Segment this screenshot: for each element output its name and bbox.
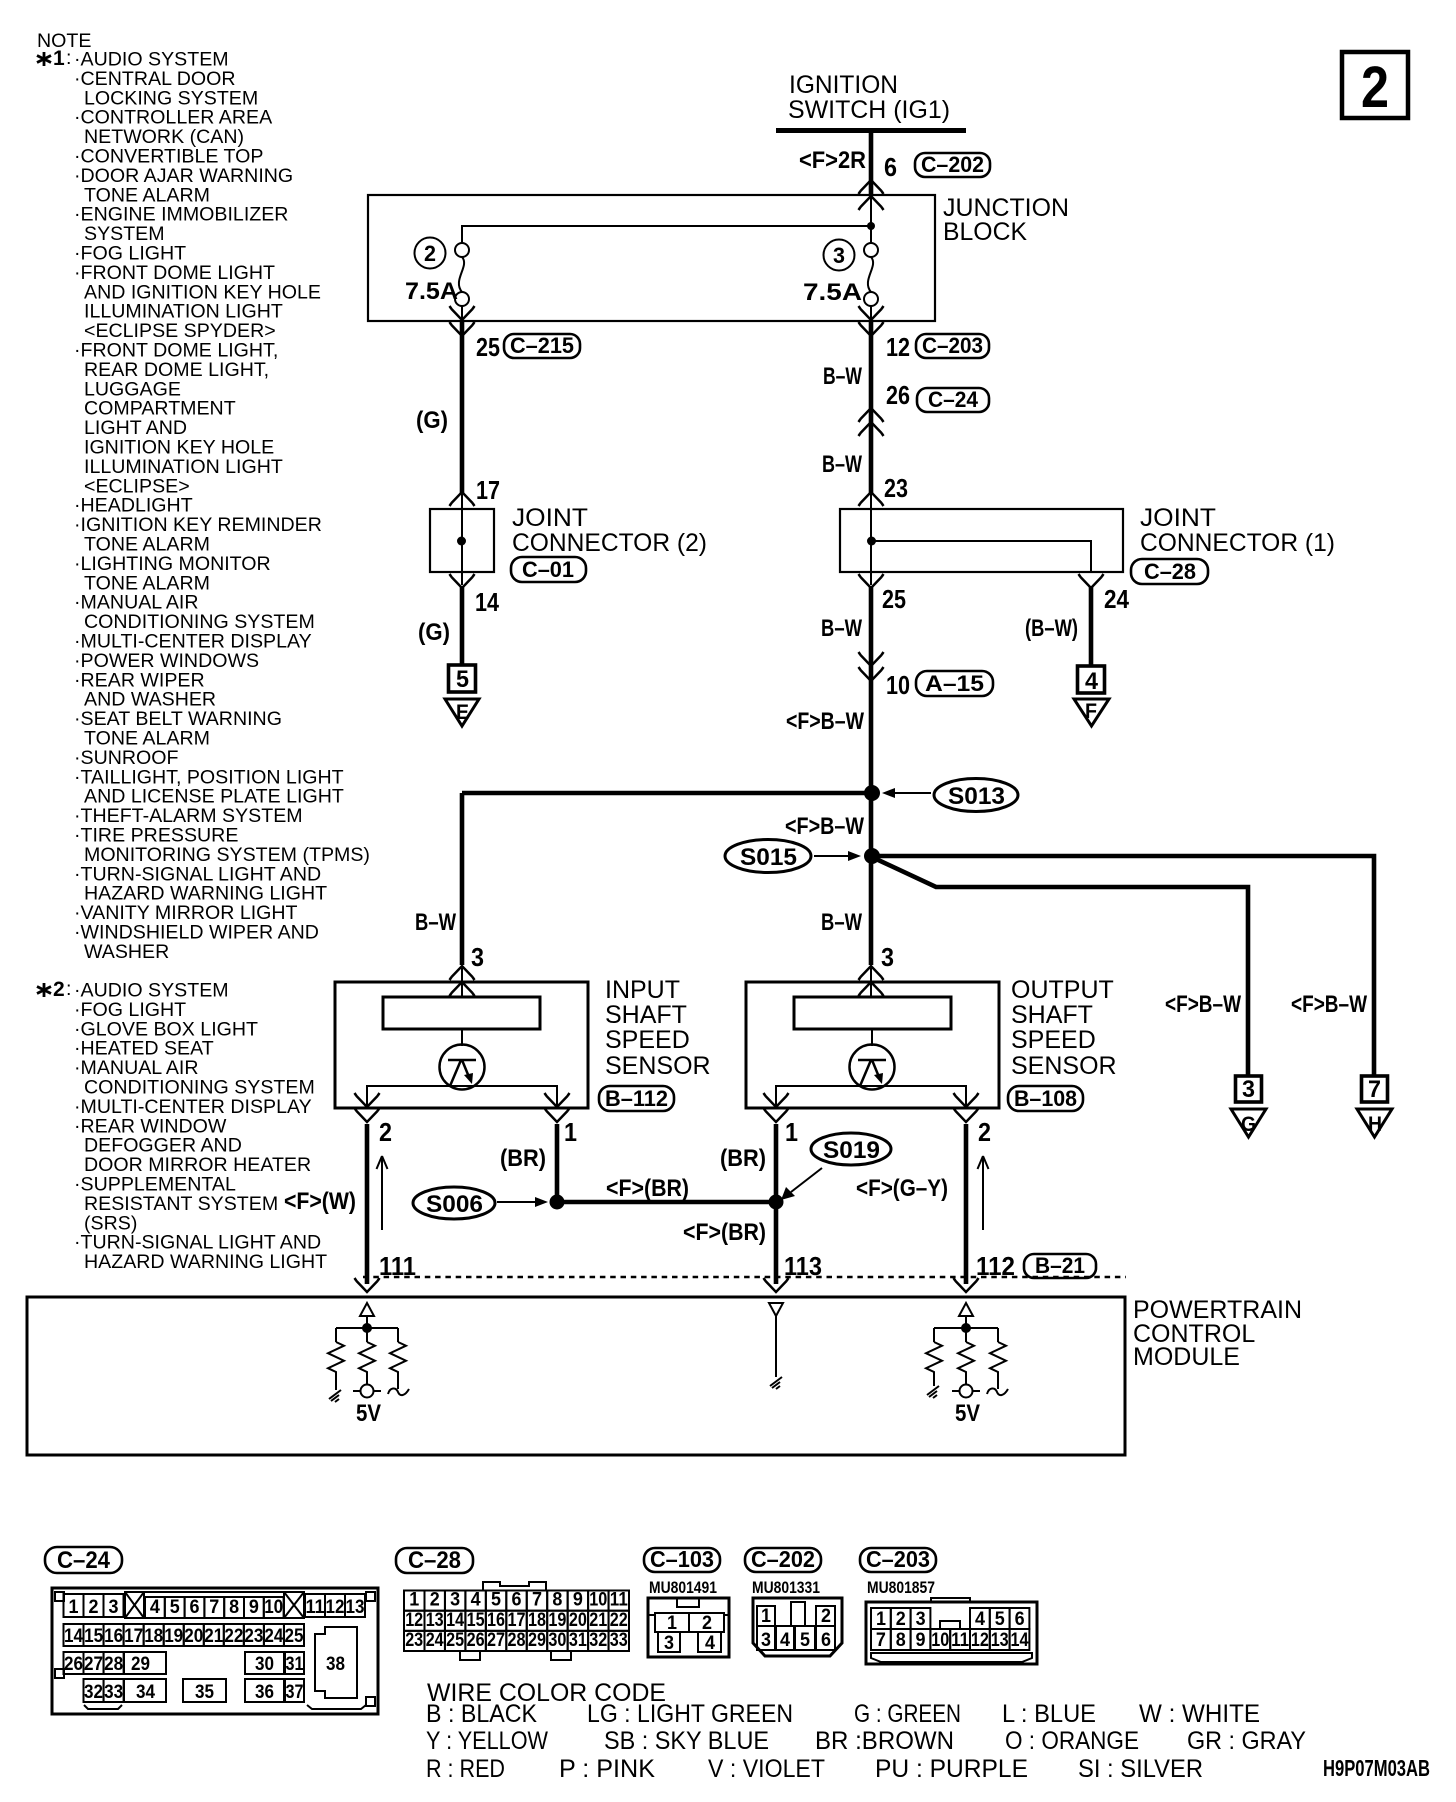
pin 25 below joint connector 1 xyxy=(882,584,906,614)
svg-text:2: 2 xyxy=(379,1117,392,1147)
svg-text:JOINT: JOINT xyxy=(1140,504,1216,532)
output sensor coil rect xyxy=(794,997,951,1029)
svg-text:17: 17 xyxy=(476,475,500,505)
svg-text:5: 5 xyxy=(995,1609,1005,1630)
svg-text:1: 1 xyxy=(667,1613,677,1634)
connector C-28 label box xyxy=(1131,559,1208,584)
joint connector 2 exit chevron xyxy=(450,574,475,588)
output sensor exit chevrons pin 2 xyxy=(954,1093,979,1122)
input shaft speed sensor box xyxy=(335,982,588,1108)
output shaft speed sensor box xyxy=(746,982,999,1108)
svg-text:R : RED: R : RED xyxy=(426,1755,505,1783)
node PCM left dot xyxy=(362,1323,372,1333)
svg-text:CONNECTOR (1): CONNECTOR (1) xyxy=(1140,529,1335,557)
pin 113 xyxy=(784,1251,822,1281)
wire input pin 2 to PCM 111 xyxy=(365,1124,370,1284)
svg-text:B–W: B–W xyxy=(821,615,862,642)
pin 25 left xyxy=(476,332,500,362)
svg-text:20: 20 xyxy=(569,1610,587,1631)
wire label F-B-W 2 xyxy=(785,813,864,840)
page number box 2 xyxy=(1342,52,1408,120)
svg-text:3: 3 xyxy=(833,243,845,268)
ground triangle H xyxy=(1357,1109,1392,1137)
wire label F-G-Y xyxy=(856,1175,948,1202)
svg-text:8: 8 xyxy=(229,1597,239,1618)
wire output pin 1 to PCM 113 xyxy=(774,1124,779,1284)
svg-text:12: 12 xyxy=(326,1597,345,1618)
ground R1 xyxy=(329,1390,341,1402)
svg-text:29: 29 xyxy=(131,1654,150,1675)
connector C-24 label box xyxy=(917,387,989,412)
svg-text:2: 2 xyxy=(1361,55,1389,120)
junction block label xyxy=(943,194,1069,246)
svg-text:<F>B–W: <F>B–W xyxy=(785,813,864,840)
svg-text:E: E xyxy=(456,701,469,724)
svg-text:2: 2 xyxy=(896,1609,906,1630)
coil hook R3 xyxy=(388,1388,409,1395)
svg-text:3: 3 xyxy=(761,1630,771,1651)
terminal square 3 right xyxy=(1236,1076,1262,1103)
svg-text:37: 37 xyxy=(286,1682,304,1703)
svg-text:C–28: C–28 xyxy=(408,1547,461,1574)
note list *1 xyxy=(37,47,370,963)
svg-text:31: 31 xyxy=(286,1654,304,1675)
connector C-202 label box xyxy=(915,152,990,177)
svg-text:18: 18 xyxy=(528,1610,546,1631)
node junction dot xyxy=(867,222,875,230)
joint connector 1 box xyxy=(840,509,1123,572)
svg-text:L : BLUE: L : BLUE xyxy=(1002,1700,1096,1728)
svg-text:22: 22 xyxy=(610,1610,628,1631)
wire through joint connector 2 xyxy=(461,494,463,585)
wire branch S013 horizontal xyxy=(462,791,872,796)
svg-text:5V: 5V xyxy=(356,1400,381,1427)
C-103 part number MU801491 xyxy=(649,1578,717,1597)
input sensor entry chevrons xyxy=(450,966,475,996)
svg-text:2: 2 xyxy=(821,1606,831,1627)
svg-text:O : ORANGE: O : ORANGE xyxy=(1005,1727,1139,1755)
svg-text:S015: S015 xyxy=(740,844,797,871)
connector C-202 chevrons xyxy=(859,180,884,210)
pin 1 label output sensor xyxy=(785,1117,798,1147)
fuse 3 xyxy=(864,243,878,321)
svg-text:2: 2 xyxy=(424,241,436,266)
connector B-21 label box xyxy=(1024,1253,1096,1278)
svg-text:25: 25 xyxy=(476,332,500,362)
svg-text:34: 34 xyxy=(136,1682,155,1703)
svg-text:9: 9 xyxy=(249,1597,259,1618)
svg-text:SHAFT: SHAFT xyxy=(1011,1001,1093,1029)
svg-text:14: 14 xyxy=(64,1626,83,1647)
wire S015 to terminal 7 xyxy=(872,856,1374,1076)
svg-text:SENSOR: SENSOR xyxy=(605,1052,711,1080)
svg-text:7: 7 xyxy=(876,1630,886,1651)
svg-text:25: 25 xyxy=(882,584,906,614)
svg-text:V : VIOLET: V : VIOLET xyxy=(708,1755,825,1783)
powertrain control module box xyxy=(27,1297,1125,1455)
svg-text:12: 12 xyxy=(971,1630,989,1651)
svg-text:B–W: B–W xyxy=(821,909,862,936)
svg-text:8: 8 xyxy=(552,1590,562,1611)
input sensor coil rect xyxy=(383,997,540,1029)
terminal square 4 xyxy=(1078,666,1105,695)
C-203 part number MU801857 xyxy=(867,1578,935,1597)
wire left fuse to joint connector 2 xyxy=(460,321,465,493)
node splice S006 xyxy=(550,1195,565,1210)
svg-text:SHAFT: SHAFT xyxy=(605,1001,687,1029)
svg-text:21: 21 xyxy=(204,1626,223,1647)
input sensor exit chevrons pin 2 xyxy=(355,1093,380,1122)
svg-text:S013: S013 xyxy=(948,783,1005,810)
svg-text:<F>(BR): <F>(BR) xyxy=(683,1219,766,1246)
svg-text:3: 3 xyxy=(109,1597,119,1618)
splice S013 arrow xyxy=(882,788,931,798)
svg-text:SPEED: SPEED xyxy=(1011,1026,1096,1054)
svg-text:16: 16 xyxy=(487,1610,505,1631)
svg-text:10: 10 xyxy=(264,1597,283,1618)
input sensor exit chevrons pin 1 xyxy=(545,1093,570,1122)
svg-text:<F>2R: <F>2R xyxy=(799,147,866,174)
svg-text:26: 26 xyxy=(467,1630,485,1651)
svg-text:H: H xyxy=(1368,1113,1382,1136)
svg-text:18: 18 xyxy=(144,1626,163,1647)
svg-text:7: 7 xyxy=(209,1597,219,1618)
svg-text:14: 14 xyxy=(475,587,499,617)
resistor R6 xyxy=(990,1342,1006,1389)
connector B-21 dashed line xyxy=(363,1276,1126,1279)
pin 3 right sensor xyxy=(881,942,894,972)
svg-text:LG : LIGHT GREEN: LG : LIGHT GREEN xyxy=(587,1700,793,1728)
svg-text:33: 33 xyxy=(104,1682,123,1703)
svg-text:S019: S019 xyxy=(823,1137,880,1164)
wire S015 diagonal to terminal 3 xyxy=(874,858,1248,1076)
pin 3 left sensor xyxy=(471,942,484,972)
svg-text:21: 21 xyxy=(589,1610,607,1631)
wire label G second xyxy=(418,619,450,646)
joint connector 2 box xyxy=(430,509,494,572)
svg-text:30: 30 xyxy=(548,1630,566,1651)
ground triangle G xyxy=(1231,1109,1266,1137)
node joint connector 1 dot xyxy=(867,537,876,546)
wire label F-BR below xyxy=(683,1219,766,1246)
pin 10 xyxy=(886,670,910,700)
input sensor label xyxy=(605,976,711,1080)
wire label F-B-W 1 xyxy=(786,708,864,735)
output sensor internal bus xyxy=(776,1086,966,1108)
node PCM right dot xyxy=(961,1323,971,1333)
svg-text:B : BLACK: B : BLACK xyxy=(426,1700,537,1728)
svg-text:5: 5 xyxy=(491,1590,501,1611)
wire output pin 2 to PCM 112 xyxy=(964,1124,969,1284)
svg-text:W : WHITE: W : WHITE xyxy=(1139,1700,1260,1728)
svg-text:3: 3 xyxy=(450,1590,460,1611)
svg-text:5: 5 xyxy=(800,1630,810,1651)
svg-text:C–202: C–202 xyxy=(751,1546,815,1572)
wire label F-W for pin 111 xyxy=(284,1188,356,1215)
svg-text:7.5A: 7.5A xyxy=(803,279,862,306)
svg-text:OUTPUT: OUTPUT xyxy=(1011,976,1114,1004)
wire dot to fuse 3 xyxy=(870,226,872,243)
fuse 2 number circle xyxy=(415,238,446,269)
wire label B-W right sensor xyxy=(821,909,862,936)
svg-text:MU801491: MU801491 xyxy=(649,1578,717,1597)
note heading xyxy=(37,30,91,52)
wire label B-W left sensor xyxy=(415,909,456,936)
svg-text:31: 31 xyxy=(569,1630,587,1651)
svg-text:C–202: C–202 xyxy=(921,152,984,177)
svg-text:C–24: C–24 xyxy=(928,387,979,412)
terminal square 7 xyxy=(1362,1076,1388,1103)
svg-text:SPEED: SPEED xyxy=(605,1026,690,1054)
svg-text:4: 4 xyxy=(705,1633,715,1654)
svg-text:1: 1 xyxy=(785,1117,798,1147)
svg-text:PU : PURPLE: PU : PURPLE xyxy=(875,1755,1028,1783)
svg-text:SI : SILVER: SI : SILVER xyxy=(1078,1755,1203,1783)
C-24 pins 14-25 row xyxy=(64,1624,305,1646)
svg-text:16: 16 xyxy=(104,1626,123,1647)
svg-text:27: 27 xyxy=(84,1654,103,1675)
joint connector 1 exit chevron pin 24 xyxy=(1079,574,1104,588)
svg-text:10: 10 xyxy=(589,1590,607,1611)
PCM entry chevron 113 xyxy=(764,1278,789,1292)
connector B-108 label box xyxy=(1008,1086,1083,1111)
resistor R4 xyxy=(926,1342,942,1386)
svg-text:9: 9 xyxy=(573,1590,583,1611)
connector C-24 label box xyxy=(45,1547,122,1574)
pin 26 xyxy=(886,380,910,410)
svg-text:C–01: C–01 xyxy=(522,557,574,582)
connector C-103 label box xyxy=(644,1546,720,1572)
svg-text:8: 8 xyxy=(896,1630,906,1651)
pin 24 xyxy=(1104,584,1129,614)
svg-text:30: 30 xyxy=(255,1654,274,1675)
svg-text:3: 3 xyxy=(471,942,484,972)
svg-text:<F>B–W: <F>B–W xyxy=(786,708,864,735)
svg-text:7: 7 xyxy=(532,1590,542,1611)
svg-text:3: 3 xyxy=(664,1633,674,1654)
svg-text:10: 10 xyxy=(931,1630,949,1651)
svg-text:<F>(W): <F>(W) xyxy=(284,1188,356,1215)
svg-text:B–21: B–21 xyxy=(1035,1253,1085,1278)
ground R4 xyxy=(927,1386,939,1398)
junction block box xyxy=(368,195,935,321)
wire label BR right xyxy=(720,1145,766,1172)
powertrain control module label xyxy=(1133,1296,1302,1371)
svg-text::: : xyxy=(66,47,71,69)
wire label B-W in parentheses xyxy=(1025,615,1078,642)
wire through joint connector 1 xyxy=(870,494,872,585)
input sensor wire coil to pickup xyxy=(461,1029,463,1046)
svg-text:INPUT: INPUT xyxy=(605,976,680,1004)
svg-text:7: 7 xyxy=(1368,1076,1381,1103)
svg-text:SWITCH (IG1): SWITCH (IG1) xyxy=(788,96,950,124)
wire label G left xyxy=(416,407,448,434)
svg-text:5: 5 xyxy=(170,1597,180,1618)
svg-text:MU801857: MU801857 xyxy=(867,1578,935,1597)
C-24 pins 1-13 row xyxy=(64,1592,366,1618)
node splice S015 xyxy=(864,848,880,864)
connector A-15 chevrons xyxy=(859,652,884,681)
splice S015 label xyxy=(725,840,811,873)
PCM entry chevron 111 xyxy=(355,1278,380,1292)
input sensor internal wire top xyxy=(461,968,463,997)
svg-text:10: 10 xyxy=(886,670,910,700)
voltage source 5V right xyxy=(952,1385,980,1428)
pin 17 xyxy=(476,475,500,505)
C-28 pin grid xyxy=(404,1591,629,1652)
connector C-01 label box xyxy=(511,557,586,582)
wire label F-BR above xyxy=(606,1175,689,1202)
svg-text:BR :BROWN: BR :BROWN xyxy=(815,1727,954,1755)
connector C-203 housing xyxy=(866,1598,1037,1664)
svg-text:CONNECTOR (2): CONNECTOR (2) xyxy=(512,529,707,557)
connector C-28 label box xyxy=(396,1547,473,1574)
wire splice S006 horizontal xyxy=(557,1200,776,1205)
svg-text:P : PINK: P : PINK xyxy=(559,1755,655,1783)
PCM pin triangle 111 xyxy=(360,1303,374,1316)
svg-text:38: 38 xyxy=(326,1654,345,1675)
svg-text:2: 2 xyxy=(978,1117,991,1147)
svg-text:27: 27 xyxy=(487,1630,505,1651)
wire color code row 3 xyxy=(426,1755,1203,1783)
wire color code row 2 xyxy=(426,1727,1306,1755)
connector A-15 label box xyxy=(916,671,993,696)
svg-text:3: 3 xyxy=(881,942,894,972)
connector C-202 housing xyxy=(753,1598,842,1656)
svg-text:G : GREEN: G : GREEN xyxy=(854,1700,961,1728)
wire label B-W 1 xyxy=(823,363,862,390)
svg-text:29: 29 xyxy=(528,1630,546,1651)
node splice S019 xyxy=(769,1195,784,1210)
svg-text:3: 3 xyxy=(916,1609,926,1630)
svg-text:IGNITION: IGNITION xyxy=(789,71,898,99)
svg-text:25: 25 xyxy=(446,1630,464,1651)
svg-text:12: 12 xyxy=(886,332,910,362)
input sensor internal bus xyxy=(367,1086,557,1108)
svg-text:36: 36 xyxy=(255,1682,274,1703)
pin 12 xyxy=(886,332,910,362)
svg-text:C–215: C–215 xyxy=(510,333,574,358)
connector C-215 label box xyxy=(504,333,580,358)
svg-text:C–203: C–203 xyxy=(866,1546,930,1572)
svg-text:13: 13 xyxy=(426,1610,444,1631)
svg-text:<F>(G–Y): <F>(G–Y) xyxy=(856,1175,948,1202)
wire ignition to junction block xyxy=(869,131,874,196)
connector C-24 chevrons xyxy=(859,408,884,436)
svg-text:C–28: C–28 xyxy=(1144,559,1196,584)
svg-text:7.5A: 7.5A xyxy=(405,278,458,305)
connector B-112 label box xyxy=(599,1086,674,1111)
svg-text:17: 17 xyxy=(124,1626,143,1647)
svg-text:4: 4 xyxy=(150,1597,160,1618)
svg-text:14: 14 xyxy=(446,1610,464,1631)
splice S006 arrow xyxy=(497,1197,548,1207)
svg-text:4: 4 xyxy=(975,1609,985,1630)
svg-text:15: 15 xyxy=(84,1626,103,1647)
svg-text:20: 20 xyxy=(184,1626,203,1647)
wire label BR left xyxy=(500,1145,546,1172)
connector C-28 housing xyxy=(460,1582,571,1660)
ignition switch label xyxy=(788,71,950,124)
svg-text:1: 1 xyxy=(876,1609,886,1630)
svg-text:11: 11 xyxy=(951,1630,969,1651)
input sensor pickup symbol xyxy=(440,1045,485,1090)
svg-text:BLOCK: BLOCK xyxy=(943,218,1027,246)
svg-text:24: 24 xyxy=(426,1630,444,1651)
svg-text:WASHER: WASHER xyxy=(84,941,169,963)
svg-text:B–W: B–W xyxy=(822,451,862,478)
svg-text:4: 4 xyxy=(471,1590,481,1611)
joint connector 2 entry chevron xyxy=(450,492,475,506)
svg-text:1: 1 xyxy=(53,47,65,70)
resistor R1 xyxy=(328,1342,344,1390)
svg-text:HAZARD WARNING LIGHT: HAZARD WARNING LIGHT xyxy=(84,1251,327,1273)
svg-text:28: 28 xyxy=(508,1630,526,1651)
svg-text:B–108: B–108 xyxy=(1014,1086,1077,1111)
svg-text:33: 33 xyxy=(610,1630,628,1651)
svg-text:23: 23 xyxy=(405,1630,423,1651)
output sensor wire coil to pickup xyxy=(871,1029,873,1046)
svg-text:23: 23 xyxy=(244,1626,263,1647)
svg-text:(G): (G) xyxy=(416,407,448,434)
output sensor exit chevrons pin 1 xyxy=(764,1093,789,1122)
wire label F-2R xyxy=(799,147,866,174)
signal arrow left xyxy=(377,1156,388,1230)
splice S019 arrow xyxy=(781,1168,822,1200)
junction block exit chevrons right xyxy=(859,306,884,336)
connector C-203 label box xyxy=(860,1546,936,1572)
svg-text:15: 15 xyxy=(467,1610,485,1631)
connector C-202 label box xyxy=(745,1546,821,1572)
svg-text:S006: S006 xyxy=(426,1191,483,1218)
svg-text:SB : SKY BLUE: SB : SKY BLUE xyxy=(604,1727,769,1755)
svg-text:GR : GRAY: GR : GRAY xyxy=(1187,1727,1306,1755)
joint connector 2 label xyxy=(512,504,707,557)
svg-text:G: G xyxy=(1241,1113,1256,1136)
PCM pullup network right xyxy=(934,1316,998,1342)
splice S013 label xyxy=(934,779,1018,812)
fuse 3 number circle xyxy=(824,240,855,271)
svg-text:H9P07M03AB: H9P07M03AB xyxy=(1323,1755,1430,1781)
svg-text:19: 19 xyxy=(164,1626,183,1647)
PCM entry chevron 112 xyxy=(954,1278,979,1292)
wire junction block internal xyxy=(462,196,871,243)
pin 23 xyxy=(884,473,908,503)
splice S006 label xyxy=(413,1187,495,1219)
svg-text:4: 4 xyxy=(780,1630,790,1651)
wire pin 24 to terminal 4 xyxy=(1089,586,1094,667)
svg-text:B–112: B–112 xyxy=(605,1086,668,1111)
connector C-24 housing xyxy=(52,1588,378,1714)
output sensor internal wire top xyxy=(870,968,872,997)
fuse 2 rating 7.5A xyxy=(405,278,458,305)
svg-text:MODULE: MODULE xyxy=(1133,1343,1240,1371)
svg-text:B–W: B–W xyxy=(415,909,456,936)
svg-text:19: 19 xyxy=(548,1610,566,1631)
svg-text:<F>B–W: <F>B–W xyxy=(1165,991,1241,1018)
node joint connector 2 dot xyxy=(457,537,466,546)
output sensor entry chevrons xyxy=(859,966,884,996)
wire S015 down to right sensor xyxy=(869,856,874,965)
svg-text:1: 1 xyxy=(69,1597,79,1618)
joint connector 1 entry chevron xyxy=(859,492,884,506)
resistor R2 xyxy=(359,1342,375,1385)
svg-text:24: 24 xyxy=(1104,584,1129,614)
signal arrow right xyxy=(978,1156,989,1230)
document number xyxy=(1323,1755,1430,1781)
PCM pin triangle 113 ground xyxy=(769,1303,783,1389)
svg-text:14: 14 xyxy=(1011,1630,1029,1651)
